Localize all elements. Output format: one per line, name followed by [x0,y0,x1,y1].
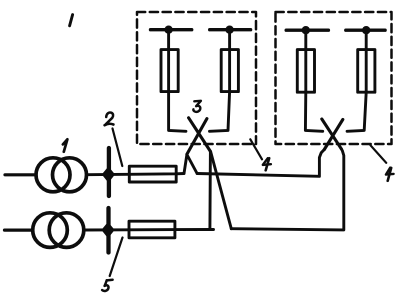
label 1 digit [63,139,68,151]
label 4 right digit [386,168,394,175]
wire F1 foot to switch [169,92,186,132]
arrester branch F4 stem wire [365,30,368,92]
wire switch 3 vertical drop [208,152,211,230]
switch 3 cross stroke a [189,118,211,152]
label 4 right leader line [371,145,387,163]
node 2 junction diamond [102,167,114,182]
wire peak joint under switch 3 [184,155,197,174]
arrester branch F4 junction dot [362,26,370,34]
label 2 digit [106,112,114,124]
arrester branch F4 top bar [346,29,385,32]
label 2 leader line [113,129,123,167]
arrester branch F1 junction dot [164,26,172,34]
transformer 1 (top) winding 1 [36,158,70,192]
fuse body F3 [297,50,314,93]
node 2 tick mark [107,148,111,196]
wire top feeder to right switch [197,150,324,177]
label 3 digit [193,101,201,112]
arrester branch F1 top bar [151,28,192,31]
fuse body F2 [221,50,238,92]
node 5 tick mark [106,208,110,253]
wire F3 foot to switch [305,92,322,131]
arrester branch F3 top bar [286,29,328,32]
wire bottom feeder through node 5 and fuse [84,228,214,231]
fuse body F1 [161,50,178,92]
switch 4 (right cell) cross stroke a [322,119,342,149]
wire top transformer left lead [5,173,36,176]
wire bottom link to right switch [231,149,343,230]
transformer 1 (bottom) winding 1 [33,213,68,248]
transformer 1 (bottom) winding 2 [49,213,84,248]
wire bottom transformer left lead [5,229,33,232]
arrester branch F3 stem wire [304,30,307,92]
label 5 leader line [110,238,123,277]
wire F2 foot to switch [210,92,230,132]
label 4 left leader line [250,139,262,159]
wire top feeder through node 2 and fuse [87,174,185,175]
arrester branch F1 stem wire [167,30,170,92]
enclosure cell 4 (right dashed box) [276,12,392,144]
label I (section mark) [70,15,73,26]
arrester branch F2 junction dot [225,26,233,34]
fuse body (bottom feeder) [129,221,175,238]
fuse body (top feeder) [129,166,176,182]
node 5 junction diamond [102,223,114,238]
wire F4 foot to switch [347,92,366,131]
switch 4 (right cell) cross stroke b [324,120,343,150]
arrester branch F2 top bar [210,28,251,31]
wire switch 3 long diagonal [211,152,232,229]
label 4 left digit [263,158,271,165]
switch 3 cross stroke b [187,119,207,155]
arrester branch F3 junction dot [302,26,310,34]
enclosure cell 4 (left dashed box) [137,12,256,144]
fuse body F4 [358,50,375,93]
arrester branch F2 stem wire [228,30,231,92]
transformer 1 (top) winding 2 [53,158,87,192]
label 5 digit [107,278,113,281]
